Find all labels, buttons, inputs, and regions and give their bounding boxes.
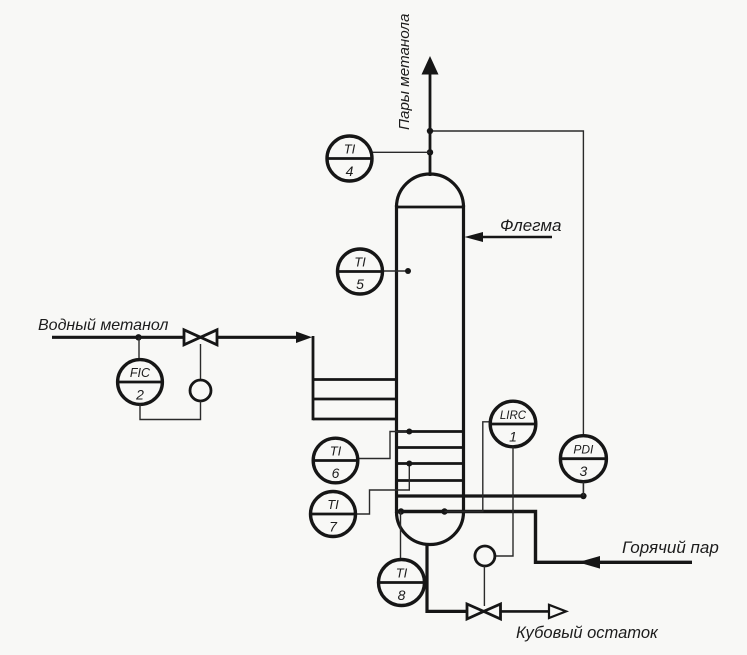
feed distributor line 2 <box>313 398 397 401</box>
svg-text:TI: TI <box>344 142 356 157</box>
svg-text:TI: TI <box>396 566 408 581</box>
tray 1 <box>397 430 464 433</box>
wire: TI-8 tap stem <box>400 512 402 560</box>
pipe: reflux inlet with arrow <box>465 232 553 242</box>
valve V1 (feed control valve) <box>184 330 217 345</box>
wire: PDI-3 bottom stub <box>582 482 584 496</box>
column C-1 shell <box>397 174 464 545</box>
tray 4 <box>397 479 464 482</box>
wire: TI-5 sensing line <box>382 270 408 272</box>
node: TI-6 tap <box>406 429 412 435</box>
svg-text:Водный метанол: Водный метанол <box>38 317 168 334</box>
svg-text:PDI: PDI <box>573 443 594 457</box>
label: Пары метанола (vertical) <box>396 14 413 130</box>
svg-text:Пары метанола: Пары метанола <box>396 14 413 130</box>
svg-text:2: 2 <box>135 387 144 403</box>
feed distributor line 1 <box>313 378 397 381</box>
wire: valve actuator stem <box>200 344 202 381</box>
wire: FIC-2 to actuator control line <box>140 401 201 420</box>
wire: PDI-3 bottom tap line <box>397 494 584 497</box>
valve V1 actuator (diaphragm) <box>190 380 211 401</box>
node: TI-8 tap junction <box>398 508 404 514</box>
svg-text:6: 6 <box>332 465 340 481</box>
svg-text:Флегма: Флегма <box>500 216 561 235</box>
wire: TI-4 sensing line <box>371 151 430 153</box>
svg-text:TI: TI <box>327 497 339 512</box>
node: vapor pipe / PDI tap junction <box>427 128 433 134</box>
feed distributor line 3 <box>313 418 397 421</box>
valve V2 (bottoms valve) <box>467 604 501 619</box>
instrument TI-8 <box>379 560 425 606</box>
svg-text:3: 3 <box>580 463 588 479</box>
svg-text:8: 8 <box>398 587 406 603</box>
pipe: feed line <box>52 332 312 344</box>
pipe: bottoms outlet <box>427 543 549 611</box>
tray 3 <box>397 462 464 465</box>
wire: FIC-2 tap stem <box>138 337 140 360</box>
instrument LIRC-1 <box>490 401 536 447</box>
node: LIRC-1 tap junction <box>441 508 447 514</box>
wire: LIRC-1 to bottoms valve control line <box>495 447 513 556</box>
node: TI-7 tap <box>406 461 412 467</box>
wire: TI-7 sensing line <box>355 464 409 515</box>
svg-text:LIRC: LIRC <box>500 410 527 422</box>
svg-text:4: 4 <box>346 163 354 179</box>
instrument TI-5 <box>338 249 383 294</box>
svg-text:TI: TI <box>330 444 342 459</box>
wire: TI-6 sensing line <box>358 432 410 459</box>
open arrow: bottoms product <box>549 605 566 618</box>
svg-text:Кубовый остаток: Кубовый остаток <box>516 624 659 642</box>
wire: LIRC-1 level tap line <box>445 422 491 512</box>
instrument TI-4 <box>327 136 372 181</box>
instrument FIC-2 <box>118 360 163 405</box>
wire: top line to PDI-3 <box>430 131 583 437</box>
svg-text:TI: TI <box>354 255 366 270</box>
node: vapor pipe / TI-4 tap junction <box>427 149 433 155</box>
node: feed / FIC-2 tap junction <box>135 334 141 340</box>
svg-text:1: 1 <box>509 429 517 445</box>
instrument TI-7 <box>311 492 356 537</box>
pipe: vapor outlet (vertical) <box>422 56 439 176</box>
valve V2 actuator (diaphragm) <box>475 546 495 566</box>
instrument PDI-3 <box>560 436 606 482</box>
svg-text:FIC: FIC <box>130 366 151 380</box>
pipe: feed downcomer <box>312 336 315 420</box>
wire: V2 actuator stem <box>483 566 485 606</box>
svg-text:5: 5 <box>356 276 364 292</box>
pipe: steam inlet <box>397 512 693 569</box>
svg-text:Горячий пар: Горячий пар <box>622 538 719 557</box>
tray 2 <box>397 446 464 449</box>
node: TI-5 tap <box>405 268 411 274</box>
node: PDI-3 bottom tap junction <box>580 493 586 499</box>
svg-text:7: 7 <box>329 519 338 535</box>
instrument TI-6 <box>313 438 358 483</box>
